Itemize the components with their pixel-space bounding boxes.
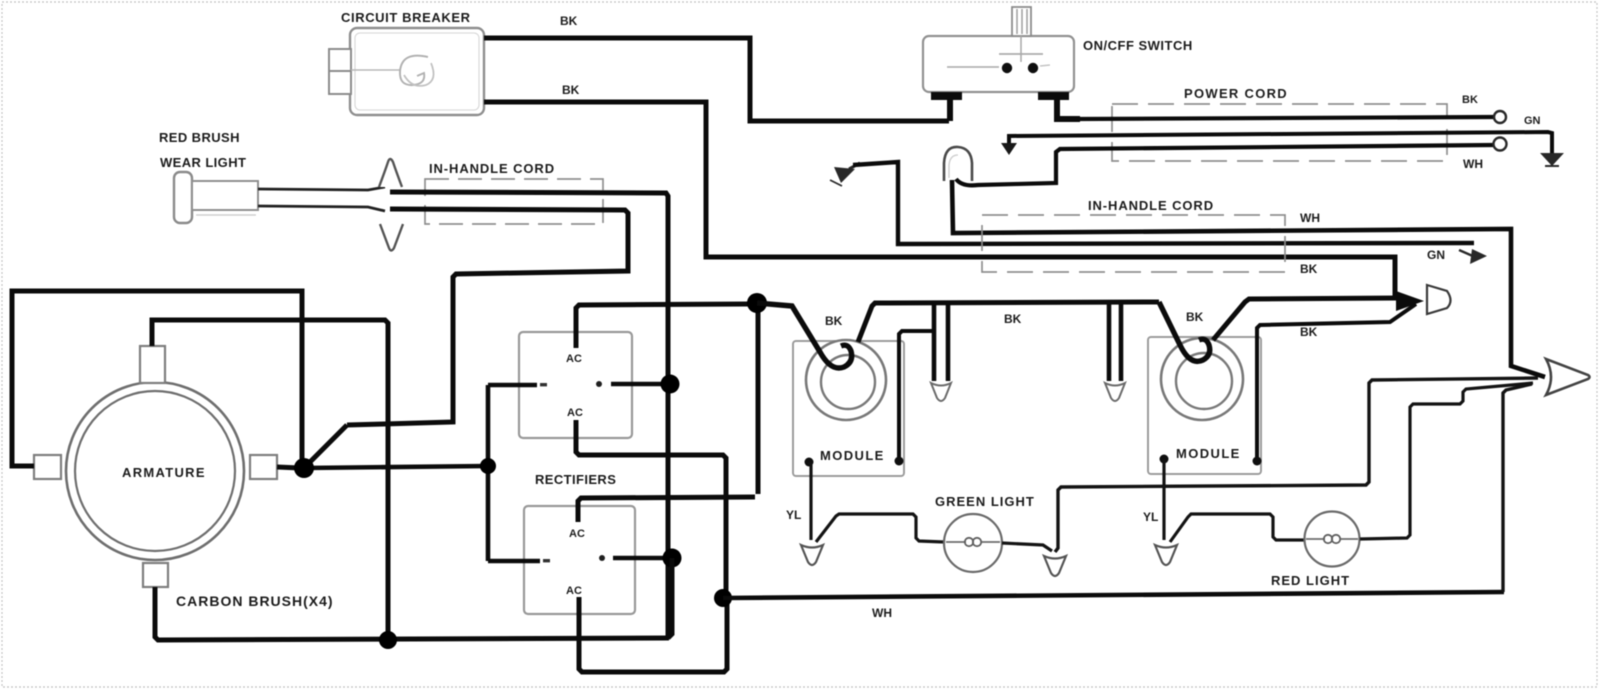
wire plug bus into U2 coil hook [1159, 302, 1210, 361]
wire D2 bottom AC loop [579, 597, 727, 672]
pin U1 bottom-left [805, 458, 814, 467]
node D2 plus column [663, 549, 682, 568]
wire BK power cord [1078, 117, 1494, 119]
connector chevron up (in-handle cord entry) [379, 159, 402, 187]
armature M1 [66, 382, 244, 560]
svg-text:POWER CORD: POWER CORD [1184, 86, 1288, 101]
wire D2 top AC feed from module column [578, 497, 755, 522]
ground symbol GN in-handle end [1459, 249, 1487, 264]
wire D1 top AC feed with corner to module bus [576, 304, 748, 348]
svg-text:RED LIGHT: RED LIGHT [1271, 573, 1350, 588]
connector socket outline [1427, 285, 1451, 314]
circuit breaker CB1 [329, 28, 484, 115]
pin dot D1 plus [596, 381, 602, 387]
wire YL1 to green light [816, 514, 944, 542]
wire in-handle top (to rectifier right column) [390, 192, 668, 637]
svg-text:GN: GN [1427, 248, 1445, 262]
node junction A (armature right) [294, 458, 314, 478]
svg-text:GN: GN [1524, 115, 1541, 127]
module U1 box [793, 341, 904, 476]
pin U1 bottom-right [895, 457, 904, 466]
wire top brush riser [152, 320, 388, 640]
wire green light riser to big connector [1055, 378, 1538, 552]
svg-text:YL: YL [1143, 510, 1158, 524]
big output connector arrow [1546, 359, 1590, 395]
wire outer loop left brush to right junction [12, 291, 302, 466]
module U1 coil [806, 340, 886, 420]
carbon brush right [250, 455, 277, 479]
pin U2 bottom-left [1160, 455, 1169, 464]
pin tick D1 minus [540, 383, 547, 386]
node module bus junction B [747, 293, 767, 313]
connector arrowhead (BK output) [1396, 291, 1424, 311]
wire D2 plus terminal to node [613, 556, 665, 560]
svg-text:WEAR LIGHT: WEAR LIGHT [160, 155, 246, 170]
switch terminal right [1038, 92, 1069, 100]
svg-text:IN-HANDLE CORD: IN-HANDLE CORD [429, 161, 555, 176]
svg-text:BK: BK [1004, 312, 1022, 326]
carbon brush bottom [143, 563, 168, 587]
wire right brush to junction A [277, 467, 300, 468]
svg-text:BK: BK [1300, 325, 1318, 339]
svg-text:IN-HANDLE CORD: IN-HANDLE CORD [1088, 198, 1214, 213]
wire D2 minus terminal [488, 559, 540, 563]
switch terminal left [931, 92, 962, 100]
wire green light to right connector joint [1002, 543, 1052, 551]
svg-text:MODULE: MODULE [1176, 446, 1241, 461]
wire D1 plus terminal to node [611, 382, 664, 386]
module U2 box [1148, 337, 1261, 474]
wire U2 coil exit to output connector [1213, 298, 1398, 340]
svg-text:GREEN LIGHT: GREEN LIGHT [935, 494, 1035, 509]
svg-text:CARBON BRUSH(X4): CARBON BRUSH(X4) [176, 593, 334, 609]
svg-text:RECTIFIERS: RECTIFIERS [535, 472, 616, 487]
pin U2 bottom-right [1253, 457, 1262, 466]
wire BK breaker bottom long run [484, 102, 1395, 296]
connector chevron down (in-handle cord entry) [380, 224, 403, 251]
svg-text:MODULE: MODULE [820, 448, 885, 463]
svg-text:AC: AC [566, 585, 582, 597]
wire WH lamp down to in-handle cord [952, 180, 1545, 377]
connector chevron green light [1044, 556, 1066, 576]
wire red light staircase to big connector [1360, 383, 1533, 539]
node D1 plus column [661, 375, 680, 394]
in-handle cord 2 dashed box [982, 215, 1285, 272]
svg-text:YL: YL [786, 508, 801, 522]
wire D1 minus terminal [488, 383, 537, 387]
green light lamp DS2 [944, 514, 1002, 572]
in-handle cord 1 dashed box [425, 179, 603, 224]
ground symbol GN power cord end [1540, 153, 1564, 166]
wire D1 bottom AC to white column [576, 420, 726, 596]
wire U1 coil exit to plug bus [858, 302, 1159, 342]
svg-text:WH: WH [872, 606, 892, 620]
svg-text:BK: BK [562, 83, 580, 97]
brush wear lamp dome near switch [944, 147, 972, 181]
wire AC column to bottom bus [668, 558, 672, 638]
on/off switch S1 [923, 7, 1080, 121]
terminal circle WH [1494, 138, 1507, 151]
pin dot D2 plus [599, 555, 605, 561]
connector plug 2 (hairpin) [1105, 303, 1125, 401]
svg-text:BK: BK [1462, 94, 1478, 106]
power cord dashed box [1112, 104, 1447, 161]
svg-text:AC: AC [567, 407, 583, 419]
wire YL U2 to lamp connector [1162, 459, 1165, 540]
wire WH power cord to lamp [956, 145, 1494, 185]
svg-text:BK: BK [560, 14, 578, 28]
wire in-handle bottom (loop back to armature junction) [347, 209, 628, 425]
carbon brush left [34, 455, 61, 479]
wire junction A to rectifier left column [304, 466, 488, 468]
svg-text:BK: BK [1186, 310, 1204, 324]
svg-text:WH: WH [1300, 211, 1320, 225]
wire GN power cord to ground [1009, 132, 1552, 153]
node white bus junction [714, 589, 732, 607]
connector chevron YL2 [1155, 545, 1177, 565]
wire rectifier left column [486, 385, 491, 561]
wire WH riser to big connector [1503, 384, 1532, 592]
module U2 coil [1161, 338, 1243, 420]
connector chevron YL1 [801, 545, 823, 565]
svg-text:BK: BK [1300, 262, 1318, 276]
node rectifier left column [480, 458, 496, 474]
svg-text:ON/CFF SWITCH: ON/CFF SWITCH [1083, 38, 1193, 53]
ground symbol mid (GN wire start) [830, 163, 860, 186]
wire YL2 to red light [1170, 514, 1305, 542]
wire U1 right pin riser [899, 331, 934, 457]
terminal circle BK [1494, 111, 1506, 123]
wire GN mid to in-handle cord [853, 162, 1474, 244]
svg-text:RED BRUSH: RED BRUSH [159, 130, 240, 145]
wire diagonal junction A to handle loop [304, 425, 347, 468]
wire YL U1 to lamp connector [809, 462, 811, 540]
wire bottom brush to bottom bus [155, 587, 669, 640]
wire junction B into U1 coil hook [757, 303, 852, 368]
node junction bottom bus [379, 631, 397, 649]
svg-text:WH: WH [1463, 157, 1483, 171]
pin tick D2 minus [543, 559, 550, 562]
rectifier D1 box [519, 332, 632, 438]
wire U2 right pin riser to connector [1257, 304, 1416, 457]
svg-text:BK: BK [825, 314, 843, 328]
svg-text:AC: AC [569, 528, 585, 540]
carbon brush top [140, 346, 165, 383]
connector plug 1 (hairpin) [931, 304, 951, 401]
svg-text:AC: AC [566, 353, 582, 365]
wire BK breaker top to switch left terminal [484, 38, 949, 121]
wire module bus drop [756, 306, 761, 494]
wire wear light top lead [258, 187, 385, 190]
svg-text:CIRCUIT BREAKER: CIRCUIT BREAKER [341, 10, 471, 25]
svg-text:ARMATURE: ARMATURE [122, 465, 206, 480]
wire WH bottom bus [723, 592, 1504, 598]
red light lamp DS3 [1305, 512, 1360, 567]
wire wear light bottom lead [258, 206, 385, 211]
red brush wear light DS1 [174, 172, 258, 223]
rectifier D2 box [524, 506, 635, 614]
ground arrow at switch (GN) [1001, 143, 1017, 155]
